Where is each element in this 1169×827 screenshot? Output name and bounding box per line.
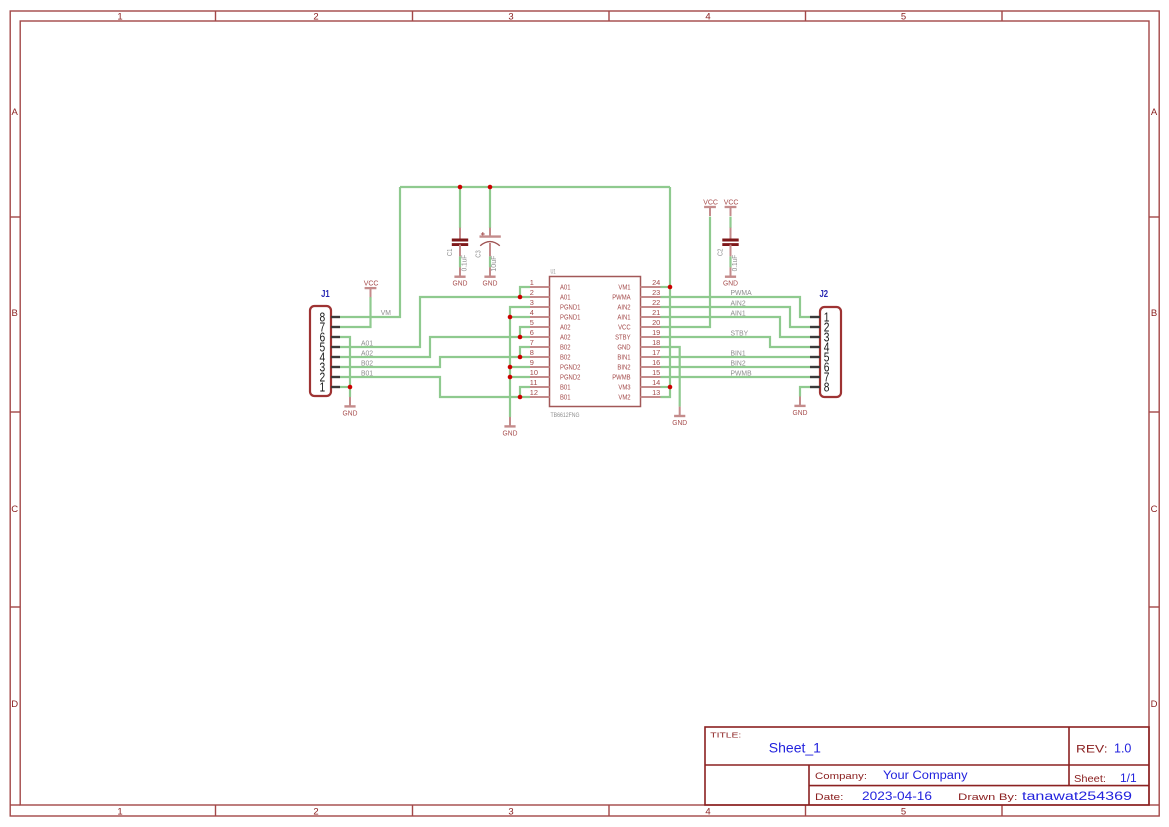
row tick marks right — [1149, 217, 1159, 607]
svg-text:VM3: VM3 — [618, 383, 630, 392]
svg-text:Date:: Date: — [815, 792, 844, 803]
svg-text:D: D — [1151, 699, 1158, 710]
wire C2 top — [729, 217, 731, 228]
svg-text:VCC: VCC — [618, 323, 631, 332]
svg-text:8: 8 — [530, 348, 534, 357]
wire C1 top drop — [459, 187, 461, 228]
svg-text:PGND2: PGND2 — [560, 373, 580, 382]
wire U1 pin1 hook — [520, 287, 530, 297]
wire J1 pin6 to GND — [340, 337, 350, 397]
svg-text:STBY: STBY — [615, 333, 631, 342]
wire U1 pin10 stub — [510, 376, 530, 378]
wire PGND bus U1 pin3 — [510, 307, 530, 417]
svg-text:17: 17 — [652, 348, 660, 357]
svg-text:AIN2: AIN2 — [731, 298, 746, 307]
power flag VCC (above J1) — [364, 278, 379, 297]
title block REV — [1076, 741, 1131, 755]
wire net A01 J1.5 to U1.2 — [340, 297, 530, 347]
svg-text:BIN2: BIN2 — [617, 363, 630, 372]
J1 pin 5 — [331, 346, 340, 348]
U1 pin 2 A01 — [530, 296, 550, 298]
svg-text:GND: GND — [503, 428, 518, 437]
svg-text:VCC: VCC — [724, 197, 739, 206]
title block drawn by — [958, 791, 1132, 803]
svg-text:Sheet_1: Sheet_1 — [769, 740, 821, 756]
svg-text:AIN1: AIN1 — [617, 313, 630, 322]
ground GND (PGND bus) — [503, 417, 518, 437]
svg-text:TB6612FNG: TB6612FNG — [551, 412, 580, 419]
wire C1 bottom — [459, 256, 461, 267]
U1 pin 16 BIN2 — [641, 366, 661, 368]
svg-text:AIN2: AIN2 — [617, 303, 630, 312]
wire C3 top drop — [489, 187, 491, 228]
svg-text:A02: A02 — [361, 348, 373, 357]
svg-text:VCC: VCC — [364, 278, 379, 287]
row labels right — [1151, 107, 1158, 710]
svg-text:J1: J1 — [321, 288, 330, 300]
J2 pin 1 — [810, 316, 820, 318]
wire U1 pin18 to GND — [661, 347, 680, 407]
svg-text:C2: C2 — [716, 249, 725, 257]
svg-text:Sheet:: Sheet: — [1074, 774, 1106, 785]
svg-text:4: 4 — [705, 807, 710, 818]
svg-text:B02: B02 — [560, 353, 571, 362]
U1 pin 3 PGND1 — [530, 306, 550, 308]
svg-text:15: 15 — [652, 368, 660, 377]
connector J1 — [310, 288, 340, 396]
wire net B01 J1.2 to U1.12 — [340, 377, 530, 397]
svg-text:1: 1 — [117, 12, 122, 23]
svg-text:VM1: VM1 — [618, 283, 630, 292]
junction node VM U1 pin14 — [668, 385, 673, 390]
svg-text:PWMB: PWMB — [731, 368, 752, 377]
svg-text:VM2: VM2 — [618, 393, 630, 402]
svg-text:PWMA: PWMA — [731, 288, 753, 297]
U1 pin 9 PGND2 — [530, 366, 550, 368]
svg-text:BIN2: BIN2 — [731, 358, 746, 367]
column tick marks top — [216, 11, 1003, 21]
U1 pin 4 PGND1 — [530, 316, 550, 318]
column tick marks bottom — [216, 805, 1003, 816]
wire J1 pin1 stub — [340, 386, 350, 388]
capacitor C3 (polarized) — [473, 228, 500, 272]
svg-text:A01: A01 — [361, 338, 373, 347]
wire net A02 J1.4 to U1.6 — [340, 337, 530, 357]
svg-text:22: 22 — [652, 298, 660, 307]
column labels top — [117, 12, 906, 23]
svg-text:19: 19 — [652, 328, 660, 337]
svg-text:2: 2 — [530, 288, 534, 297]
J2 pin 5 — [810, 356, 820, 358]
wire net PWMB U1.15 to J2.7 — [661, 376, 811, 378]
svg-text:1: 1 — [117, 807, 122, 818]
U1 pin 7 B02 — [530, 346, 550, 348]
J2 pin 7 — [810, 376, 820, 378]
svg-text:2023-04-16: 2023-04-16 — [862, 791, 932, 803]
svg-text:GND: GND — [343, 408, 358, 417]
svg-text:GND: GND — [723, 279, 738, 288]
svg-text:GND: GND — [672, 418, 687, 427]
title block outline — [705, 727, 1149, 805]
svg-text:B02: B02 — [560, 343, 571, 352]
row tick marks left — [10, 217, 20, 607]
svg-text:B: B — [1151, 308, 1157, 319]
J2 pin 6 — [810, 366, 820, 368]
svg-text:BIN1: BIN1 — [617, 353, 630, 362]
svg-text:C: C — [1151, 504, 1158, 515]
wire U1 pin5 hook — [520, 327, 530, 337]
U1 pin 14 VM3 — [641, 386, 661, 388]
svg-text:GND: GND — [453, 279, 468, 288]
svg-text:B01: B01 — [361, 368, 373, 377]
svg-text:12: 12 — [530, 388, 538, 397]
junction node B02 U1 — [518, 355, 523, 360]
svg-text:20: 20 — [652, 318, 660, 327]
ground GND (below J1) — [343, 397, 358, 417]
svg-text:B01: B01 — [560, 383, 571, 392]
svg-text:3: 3 — [508, 807, 513, 818]
svg-text:2: 2 — [313, 12, 318, 23]
U1 pin 5 A02 — [530, 326, 550, 328]
svg-text:Your Company: Your Company — [883, 770, 968, 782]
ground GND (below C1) — [453, 267, 468, 287]
svg-text:D: D — [11, 699, 18, 710]
junction node VM U1 pin24 — [668, 285, 673, 290]
U1 pin 6 A02 — [530, 336, 550, 338]
svg-text:24: 24 — [652, 278, 660, 287]
svg-text:18: 18 — [652, 338, 660, 347]
J1 pin 8 — [331, 316, 340, 318]
svg-text:Drawn By:: Drawn By: — [958, 792, 1018, 803]
svg-text:PWMB: PWMB — [612, 373, 630, 382]
U1 pin 10 PGND2 — [530, 376, 550, 378]
junction node A02 U1 — [518, 335, 523, 340]
U1 pin 22 AIN2 — [641, 306, 661, 308]
wire U1 pin20 to VCC — [661, 217, 711, 327]
junction node A01 U1 — [518, 295, 523, 300]
svg-text:4: 4 — [530, 308, 534, 317]
wire U1 pin4 stub — [510, 316, 530, 318]
ground GND (U1 pin18) — [672, 407, 687, 427]
svg-text:PGND2: PGND2 — [560, 363, 580, 372]
svg-text:1: 1 — [319, 380, 325, 395]
svg-text:B: B — [12, 308, 18, 319]
svg-text:PWMA: PWMA — [612, 293, 630, 302]
U1 pin 21 AIN1 — [641, 316, 661, 318]
svg-text:C: C — [11, 504, 18, 515]
svg-text:A01: A01 — [560, 283, 571, 292]
svg-text:VCC: VCC — [703, 197, 718, 206]
svg-text:9: 9 — [530, 358, 534, 367]
svg-text:6: 6 — [530, 328, 534, 337]
svg-text:REV:: REV: — [1076, 744, 1108, 756]
wire U1 pin11 hook — [520, 387, 530, 397]
svg-text:5: 5 — [901, 807, 906, 818]
svg-text:16: 16 — [652, 358, 660, 367]
svg-text:11: 11 — [530, 378, 538, 387]
svg-text:U1: U1 — [551, 268, 557, 275]
U1 pin 11 B01 — [530, 386, 550, 388]
svg-text:STBY: STBY — [731, 328, 749, 337]
J1 pin 1 — [331, 386, 340, 388]
U1 pin 23 PWMA — [641, 296, 661, 298]
J1 pin 7 — [331, 326, 340, 328]
svg-text:3: 3 — [530, 298, 534, 307]
wire U1 pin7 hook — [520, 347, 530, 357]
ground GND (below C3) — [483, 267, 498, 287]
junction node B01 U1 — [518, 395, 523, 400]
title block sheet number — [1074, 771, 1137, 785]
svg-text:GND: GND — [483, 279, 498, 288]
svg-text:GND: GND — [793, 408, 808, 417]
svg-text:PGND1: PGND1 — [560, 303, 580, 312]
ground GND (below J2) — [793, 397, 808, 417]
U1 pin 13 VM2 — [641, 396, 661, 398]
junction node PGND U1 pin10 — [508, 375, 513, 380]
svg-text:C1: C1 — [445, 249, 454, 257]
svg-text:7: 7 — [530, 338, 534, 347]
J2 pin 4 — [810, 346, 820, 348]
capacitor C2 — [716, 228, 739, 272]
svg-text:BIN1: BIN1 — [731, 348, 746, 357]
svg-text:5: 5 — [530, 318, 534, 327]
svg-text:J2: J2 — [820, 288, 829, 300]
column labels bottom — [117, 807, 906, 818]
svg-text:A: A — [12, 107, 19, 118]
wire net AIN2 U1.22 to J2.2 — [661, 307, 811, 327]
wire VCC to J1 pin7 — [340, 297, 371, 327]
svg-text:1/1: 1/1 — [1120, 771, 1137, 785]
svg-text:13: 13 — [652, 388, 660, 397]
svg-text:tanawat254369: tanawat254369 — [1022, 791, 1132, 803]
power flag VCC (U1 supply) — [703, 197, 718, 216]
wire net STBY U1.19 to J2.4 — [661, 337, 811, 347]
J1 pin 4 — [331, 356, 340, 358]
svg-text:A02: A02 — [560, 333, 571, 342]
J1 pin 3 — [331, 366, 340, 368]
svg-text:A02: A02 — [560, 323, 571, 332]
U1 pin 24 VM1 — [641, 286, 661, 288]
wire J1 pin8 to VM rail — [340, 187, 400, 317]
J2 pin 3 — [810, 336, 820, 338]
U1 pin 8 B02 — [530, 356, 550, 358]
wire C2 bottom — [729, 256, 731, 267]
svg-text:VM: VM — [381, 308, 391, 317]
title block date — [815, 791, 932, 803]
junction node GND J1 pin1 — [348, 385, 353, 390]
svg-text:B01: B01 — [560, 393, 571, 402]
title block company — [815, 770, 968, 782]
wire net PWMA U1.23 to J2.1 — [661, 297, 811, 317]
svg-text:23: 23 — [652, 288, 660, 297]
ground GND (below C2) — [723, 267, 738, 287]
IC U1 TB6612FNG — [530, 268, 661, 419]
U1 pin 1 A01 — [530, 286, 550, 288]
svg-text:8: 8 — [824, 380, 830, 395]
svg-text:GND: GND — [617, 343, 630, 352]
svg-text:A: A — [1151, 107, 1158, 118]
U1 pin 15 PWMB — [641, 376, 661, 378]
svg-text:B02: B02 — [361, 358, 373, 367]
J2 pin 8 — [810, 386, 820, 388]
power flag VCC (above C2) — [724, 197, 739, 216]
J1 pin 6 — [331, 336, 340, 338]
svg-text:5: 5 — [901, 12, 906, 23]
junction node PGND U1 pin9 — [508, 365, 513, 370]
wire U1 pin9 stub — [510, 366, 530, 368]
wire net BIN2 U1.16 to J2.6 — [661, 366, 811, 368]
U1 pin 20 VCC — [641, 326, 661, 328]
C3 plus mark — [481, 233, 485, 235]
svg-text:A01: A01 — [560, 293, 571, 302]
svg-text:14: 14 — [652, 378, 660, 387]
capacitor C1 — [445, 228, 468, 272]
junction node VM/C1 — [458, 185, 463, 190]
svg-text:10: 10 — [530, 368, 538, 377]
svg-text:PGND1: PGND1 — [560, 313, 580, 322]
row labels left — [11, 107, 18, 710]
svg-text:1: 1 — [530, 278, 534, 287]
bottom label strip edge extensions — [10, 804, 1159, 806]
svg-text:TITLE:: TITLE: — [710, 731, 741, 740]
svg-text:Company:: Company: — [815, 771, 867, 782]
svg-text:4: 4 — [705, 12, 710, 23]
U1 pin 17 BIN1 — [641, 356, 661, 358]
wire C3 bottom — [489, 256, 491, 267]
wire net AIN1 U1.21 to J2.3 — [661, 317, 811, 337]
U1 pin 19 STBY — [641, 336, 661, 338]
U1 pin 12 B01 — [530, 396, 550, 398]
svg-text:3: 3 — [508, 12, 513, 23]
junction node PGND U1 pin4 — [508, 315, 513, 320]
junction node VM/C3 — [488, 185, 493, 190]
J2 pin 2 — [810, 326, 820, 328]
wire net B02 J1.3 to U1.8 — [340, 357, 530, 367]
svg-text:1.0: 1.0 — [1114, 741, 1131, 755]
wire U1 pin14 stub — [661, 386, 671, 388]
svg-text:C3: C3 — [473, 250, 482, 258]
svg-text:21: 21 — [652, 308, 660, 317]
U1 pin 18 GND — [641, 346, 661, 348]
connector J2 — [810, 288, 841, 397]
wire VM top rail — [400, 186, 670, 188]
svg-text:AIN1: AIN1 — [731, 308, 746, 317]
svg-text:2: 2 — [313, 807, 318, 818]
wire VM right drop to U1 pin13 — [661, 187, 671, 397]
J1 pin 2 — [331, 376, 340, 378]
wire U1 pin24 stub — [661, 286, 671, 288]
wire J2 pin8 to GND — [800, 387, 810, 397]
wire net BIN1 U1.17 to J2.5 — [661, 356, 811, 358]
